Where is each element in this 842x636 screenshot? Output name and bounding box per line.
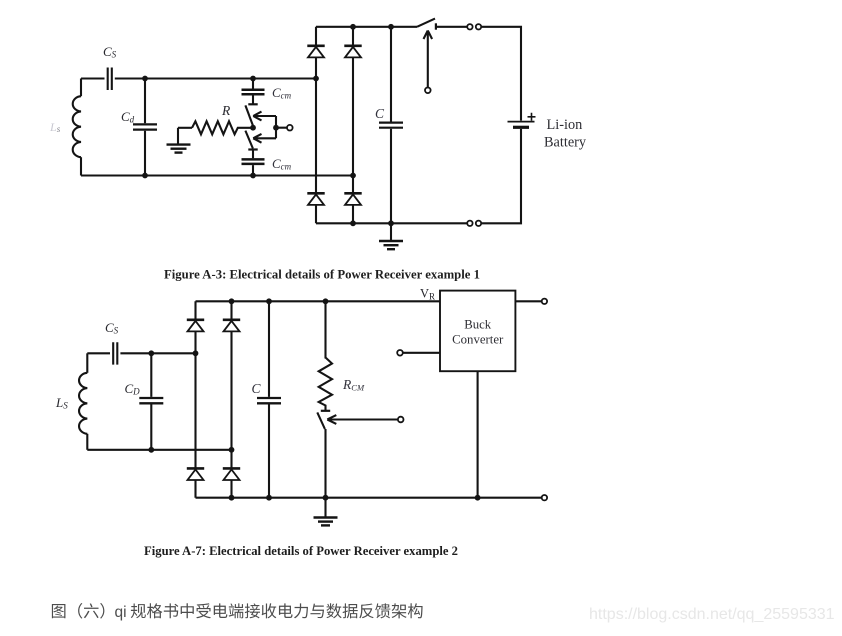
svg-text:Buck: Buck (464, 318, 492, 332)
node: rail junction right leg (circuit 2) (229, 298, 235, 304)
label C (circuit 2) (252, 381, 262, 396)
ground (below C, circuit 1) (379, 223, 403, 249)
node: junction CD bottom (148, 447, 154, 453)
coil Ls (receiver coil, circuit 2) (79, 353, 87, 450)
wire: bridge right leg (circuit 1) (352, 27, 354, 224)
arrow: control of switch S2 (253, 134, 276, 143)
svg-text:Ccm: Ccm (272, 85, 292, 101)
capacitor Ccm bottom (circuit 1) (242, 151, 265, 176)
caption: Chinese figure title 图（六）qi规格书中受电端接收电力与数据反馈架构 (52, 603, 423, 619)
terminal: output top circle (542, 299, 547, 304)
capacitor CD (detection, circuit 2) (139, 398, 163, 403)
diode D3 (bottom-left, circuit 1) (307, 193, 324, 205)
diode D1 (top-left, circuit 1) (307, 46, 324, 58)
diode D7 (bottom-left, circuit 2) (187, 468, 204, 480)
label: Li-ion Battery (544, 117, 587, 151)
label Ccm bottom (272, 156, 292, 172)
ground (below RCM branch, circuit 2) (314, 498, 338, 526)
wire: top resonant wire circuit 2 (87, 352, 195, 354)
wire: top resonant wire circuit 1 (81, 77, 316, 79)
node: junction Cd bottom (142, 173, 148, 179)
node: AC input junction right leg (circuit 2) (229, 447, 235, 453)
node: AC input junction right leg (350, 173, 356, 179)
terminal: control input circle (287, 125, 293, 131)
caption: Figure A-7 (144, 544, 458, 558)
terminal: connector top pair (467, 24, 481, 29)
svg-text:RCM: RCM (342, 377, 365, 393)
diode D4 (bottom-right, circuit 1) (344, 193, 361, 205)
node: bottom rail junction right leg (350, 220, 356, 226)
node: junction CD top (148, 350, 154, 356)
wire: control bracket (276, 116, 287, 138)
label: Buck Converter (452, 318, 504, 347)
wire: to battery top (481, 27, 521, 121)
capacitor C (output, circuit 2) (257, 301, 281, 497)
label Cd (121, 109, 135, 125)
svg-text:LS: LS (55, 395, 68, 411)
switch S3 (output disconnect, circuit 1) (417, 19, 436, 30)
diode D6 (top-right, circuit 2) (223, 320, 240, 332)
svg-text:CS: CS (103, 44, 117, 60)
wire: bottom resonant wire circuit 2 (87, 449, 231, 451)
node: junction top wire / Ccm branch (250, 76, 256, 82)
wire: bridge right leg (circuit 2) (230, 301, 232, 497)
node: rail junction at RCM (323, 298, 329, 304)
switch S2 bottom (modulation switch) (245, 131, 257, 150)
node: junction Cd top (142, 76, 148, 82)
svg-text:Figure A-7: Electrical details: Figure A-7: Electrical details of Power … (144, 544, 458, 558)
wire: bottom DC rail circuit 1 (316, 222, 467, 224)
wire: buck converter control input (403, 352, 440, 354)
node: AC input junction left leg (circuit 2) (193, 350, 199, 356)
svg-text:Battery: Battery (544, 135, 587, 151)
node: center junction of switch pair (250, 125, 256, 131)
terminal: buck input circle (397, 350, 403, 356)
switch S1 top (modulation switch) (245, 104, 257, 125)
wire: CD branch (150, 353, 152, 450)
node: rail junction at right leg (350, 24, 356, 30)
node: bracket junction (273, 125, 279, 131)
label R (221, 103, 231, 118)
svg-text:Converter: Converter (452, 333, 504, 347)
node: junction bottom wire / Ccm branch (250, 173, 256, 179)
svg-text:Cd: Cd (121, 109, 135, 125)
arrow: control of switch S3 (424, 31, 433, 88)
wire: bottom DC rail circuit 2 (196, 497, 542, 499)
wire: top DC rail circuit 2 (196, 300, 441, 302)
wire: buck bottom pin (477, 371, 479, 498)
block U1: Buck Converter box (440, 291, 515, 372)
capacitor Ccm top (circuit 1) (242, 79, 265, 105)
capacitor C (output, circuit 1) (379, 27, 403, 224)
label: battery plus sign (528, 113, 536, 121)
wire: bridge left leg (circuit 1) (315, 27, 317, 224)
wire: top DC rail circuit 1 (316, 26, 417, 28)
caption: Figure A-3 (164, 268, 480, 282)
node: rail junction at C (circuit 2) (266, 298, 272, 304)
label VR (420, 287, 435, 302)
svg-text:Ls: Ls (49, 120, 61, 134)
terminal: S4 control circle (398, 417, 404, 423)
node: bottom rail junction at C (circuit 2) (266, 495, 272, 501)
node: buck bottom junction (475, 495, 481, 501)
diode D2 (top-right, circuit 1) (344, 46, 361, 58)
label C (circuit 1) (375, 106, 385, 121)
wire: bridge left leg (circuit 2) (194, 301, 196, 497)
wire: rail after switch (436, 26, 467, 28)
resistor RCM (modulation, circuit 2) (319, 301, 332, 410)
svg-text:CD: CD (125, 381, 141, 397)
label Cs (circuit 1) (103, 44, 117, 60)
diode D5 (top-left, circuit 2) (187, 320, 204, 332)
ground (left of resistor R) (167, 128, 191, 153)
svg-text:C: C (252, 381, 262, 396)
svg-text:VR: VR (420, 287, 435, 302)
svg-text:C: C (375, 106, 385, 121)
svg-text:Li-ion: Li-ion (547, 117, 583, 133)
svg-text:qi: qi (115, 604, 127, 621)
diode D8 (bottom-right, circuit 2) (223, 468, 240, 480)
capacitor Cd (detection, circuit 1) (133, 124, 157, 129)
wire: bottom resonant wire circuit 1 (81, 174, 353, 176)
node: bottom rail junction at C (388, 220, 394, 226)
arrow: control of switch S1 (253, 112, 276, 121)
terminal: connector bottom pair (467, 221, 481, 226)
label Cs (circuit 2) (105, 320, 119, 336)
label CD (125, 381, 141, 397)
capacitor Cs (series, circuit 2) (113, 342, 117, 364)
label RCM (342, 377, 365, 393)
wire: Cd branch (144, 79, 146, 176)
node: bottom rail junction right leg (circuit 2) (229, 495, 235, 501)
svg-text:Ccm: Ccm (272, 156, 292, 172)
terminal: output bottom circle (542, 495, 547, 500)
node: rail junction at C (388, 24, 394, 30)
arrow: control of switch S4 (327, 415, 398, 424)
wire: buck output to terminal (515, 300, 541, 302)
svg-text:CS: CS (105, 320, 119, 336)
node: AC input junction left leg (313, 76, 319, 82)
svg-text:R: R (221, 103, 231, 118)
battery B1 Li-ion (481, 122, 535, 224)
node: bottom rail junction at RCM (323, 495, 329, 501)
resistor R (communication modulation, circuit 1) (178, 121, 253, 134)
label Ls (circuit 2) (55, 395, 68, 411)
label Ls (circuit 1, partially faded) (49, 120, 61, 134)
capacitor Cs (series, circuit 1) (108, 68, 112, 91)
svg-text:https://blog.csdn.net/qq_25595: https://blog.csdn.net/qq_25595331 (589, 606, 835, 623)
coil Ls (receiver coil, circuit 1) (73, 79, 81, 176)
terminal: switch control circle (425, 88, 431, 94)
label Ccm top (272, 85, 292, 101)
switch S4 (below RCM) (317, 411, 330, 498)
svg-text:Figure A-3: Electrical details: Figure A-3: Electrical details of Power … (164, 268, 480, 282)
